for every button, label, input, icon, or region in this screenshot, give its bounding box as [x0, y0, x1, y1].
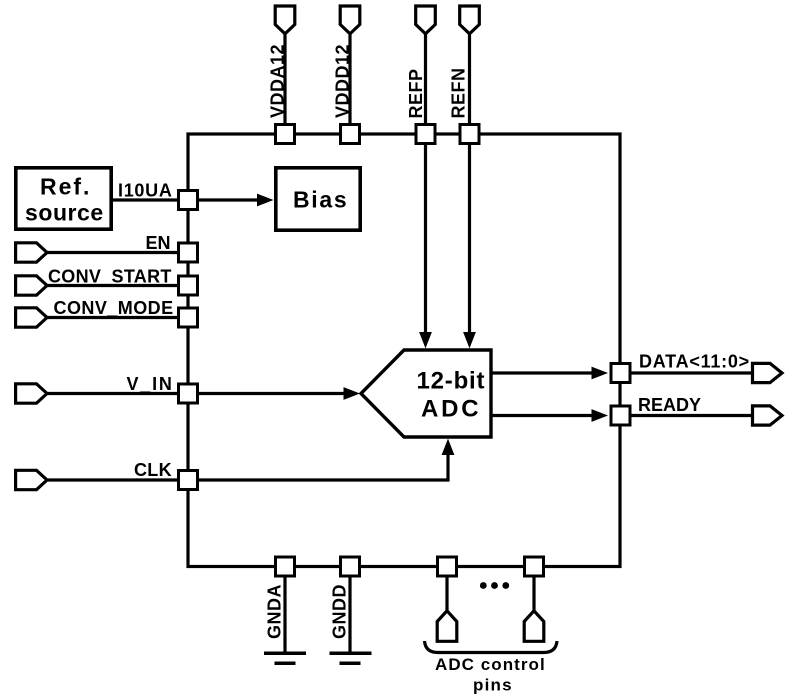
wire DATA out [630, 371, 753, 374]
pin pad square GNDA [276, 557, 295, 576]
arrowhead DATA [592, 367, 609, 380]
svg-text:I10UA: I10UA [118, 181, 173, 201]
svg-text:12-bit: 12-bit [417, 368, 486, 395]
svg-text:V_IN: V_IN [127, 374, 174, 394]
pin pad square GNDD [341, 557, 360, 576]
pin flag EN [16, 243, 47, 262]
svg-text:VDDA12: VDDA12 [268, 44, 288, 118]
12-bit ADC block [361, 350, 491, 437]
pin flag CLK [16, 470, 47, 489]
svg-text:GNDD: GNDD [330, 584, 350, 639]
wire CLK [47, 478, 178, 481]
pin flag V_IN [16, 384, 47, 403]
pin flag DATA [753, 363, 783, 382]
pin pad square control 1 [438, 557, 457, 576]
arrowhead REFP into ADC [419, 332, 432, 348]
pin pad square REFP [416, 125, 435, 144]
pin flag VDDD12 [340, 6, 360, 34]
svg-text:Ref.: Ref. [40, 174, 91, 200]
svg-text:REFN: REFN [449, 68, 469, 119]
svg-text:VDDD12: VDDD12 [333, 44, 353, 118]
pin pad square CONV_MODE [179, 308, 198, 327]
Ref. source box [16, 168, 111, 229]
pin pad square VDDA12 [276, 125, 295, 144]
wire EN [47, 251, 178, 254]
pin pad square CLK [179, 471, 198, 490]
svg-text:ADC control: ADC control [435, 655, 546, 674]
pin pad square READY [611, 406, 630, 425]
wire V_IN [47, 392, 178, 395]
ground symbol GNDA [264, 652, 306, 656]
ground symbol GNDD [330, 652, 372, 656]
wire REFP to ADC [424, 145, 427, 335]
svg-text:source: source [25, 200, 104, 226]
pin pad square CONV_START [179, 276, 198, 295]
ellipsis dots [480, 582, 487, 589]
arrow V_IN to ADC [198, 392, 346, 395]
svg-text:CONV_START: CONV_START [48, 267, 172, 287]
pin pad square DATA [611, 364, 630, 383]
svg-text:READY: READY [638, 395, 701, 415]
wire Ref. source to I10UA pin [113, 198, 178, 201]
wire CONV_MODE [47, 316, 178, 319]
wire VDDD12 pin to top edge [348, 32, 351, 126]
pin flag READY [753, 406, 783, 425]
wire REFN to ADC [468, 145, 471, 335]
pin flag control 1 [437, 611, 457, 642]
pin flag control 2 [524, 611, 544, 642]
svg-text:ADC: ADC [421, 396, 481, 423]
arrow I10UA pin to Bias [198, 198, 259, 201]
svg-text:Bias: Bias [293, 187, 348, 213]
arrowhead READY [592, 409, 609, 422]
pin pad square EN [179, 243, 198, 262]
svg-text:pins: pins [473, 676, 513, 695]
wire CLK to ADC [198, 452, 448, 480]
wire control pin 2 [532, 576, 535, 612]
wire READY out [630, 414, 753, 417]
svg-text:REFP: REFP [406, 68, 426, 118]
svg-text:GNDA: GNDA [265, 584, 285, 639]
pin pad square I10UA [179, 191, 198, 210]
wire REFP pin to top edge [424, 32, 427, 126]
pin pad square VDDD12 [341, 125, 360, 144]
svg-text:DATA<11:0>: DATA<11:0> [639, 351, 750, 371]
pin flag REFP [416, 6, 436, 34]
Bias box [276, 168, 360, 230]
pin flag CONV_MODE [16, 308, 47, 327]
wire ADC to DATA pin [491, 371, 593, 374]
arrowhead CLK into ADC [442, 439, 455, 455]
wire REFN pin to top edge [468, 32, 471, 126]
svg-text:CONV_MODE: CONV_MODE [54, 298, 174, 318]
wire GNDA to ground [283, 576, 286, 653]
wire ADC to READY pin [491, 414, 593, 417]
svg-text:EN: EN [145, 233, 170, 253]
pin pad square control 2 [525, 557, 544, 576]
arrowhead REFN into ADC [463, 332, 476, 348]
main block outline [188, 134, 620, 567]
wire VDDA12 pin to top edge [283, 32, 286, 126]
svg-text:CLK: CLK [134, 460, 172, 480]
pin flag CONV_START [16, 276, 47, 295]
pin pad square V_IN [179, 384, 198, 403]
brace ADC control pins [425, 641, 558, 653]
wire CONV_START [47, 284, 178, 287]
pin flag REFN [460, 6, 480, 34]
wire control pin 1 [445, 576, 448, 612]
wire GNDD to ground [348, 576, 351, 653]
pin flag VDDA12 [275, 6, 295, 34]
pin pad square REFN [460, 125, 479, 144]
